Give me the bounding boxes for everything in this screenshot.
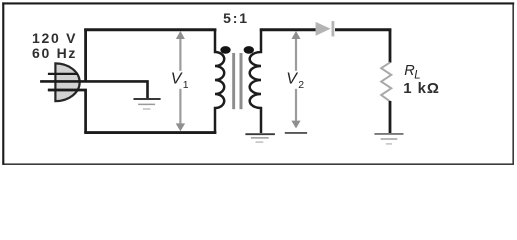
resistor RL xyxy=(381,62,391,101)
diode D1 xyxy=(316,21,335,36)
wire: plug bottom lead down to bottom rail xyxy=(48,90,86,133)
voltage arrow V1 (primary voltage) xyxy=(176,31,185,131)
ground G2 secondary bottom xyxy=(245,134,275,142)
label V2 xyxy=(286,71,304,91)
label source value 120 V 60 Hz xyxy=(32,30,77,61)
phase dot primary xyxy=(220,46,230,54)
svg-text:5:1: 5:1 xyxy=(223,10,249,26)
wire: left vertical from top rail down to plug xyxy=(84,29,87,83)
svg-text:1: 1 xyxy=(183,79,189,91)
svg-text:60 Hz: 60 Hz xyxy=(32,45,77,61)
svg-text:1 kΩ: 1 kΩ xyxy=(403,80,439,97)
wire: bottom rail primary side xyxy=(84,131,216,134)
transformer T1 xyxy=(215,10,261,133)
AC source wall plug P1 xyxy=(48,63,80,101)
wire: top rail primary side xyxy=(84,28,216,31)
wire: RL bottom lead to ground xyxy=(389,101,392,133)
node: V2 reference line xyxy=(285,132,307,134)
wire: diode cathode to load resistor xyxy=(335,28,391,31)
label RL xyxy=(404,63,420,82)
svg-text:120 V: 120 V xyxy=(32,30,77,46)
wire: plug ground prong lead to earth ground xyxy=(40,81,147,98)
svg-text:V: V xyxy=(171,71,183,88)
voltage arrow V2 (secondary voltage) xyxy=(291,31,300,129)
svg-text:2: 2 xyxy=(298,79,304,91)
svg-text:V: V xyxy=(286,71,298,88)
ground G3 under load xyxy=(374,134,403,144)
core of T1 xyxy=(232,53,235,109)
secondary winding of T1 xyxy=(250,29,261,133)
wire: right vertical from top rail to RL xyxy=(389,29,392,63)
wire: top rail secondary to diode anode xyxy=(260,28,316,31)
phase dot secondary xyxy=(244,46,254,54)
primary winding of T1 xyxy=(215,29,224,133)
ground G1 near plug xyxy=(134,99,161,109)
label V1 xyxy=(171,71,189,91)
